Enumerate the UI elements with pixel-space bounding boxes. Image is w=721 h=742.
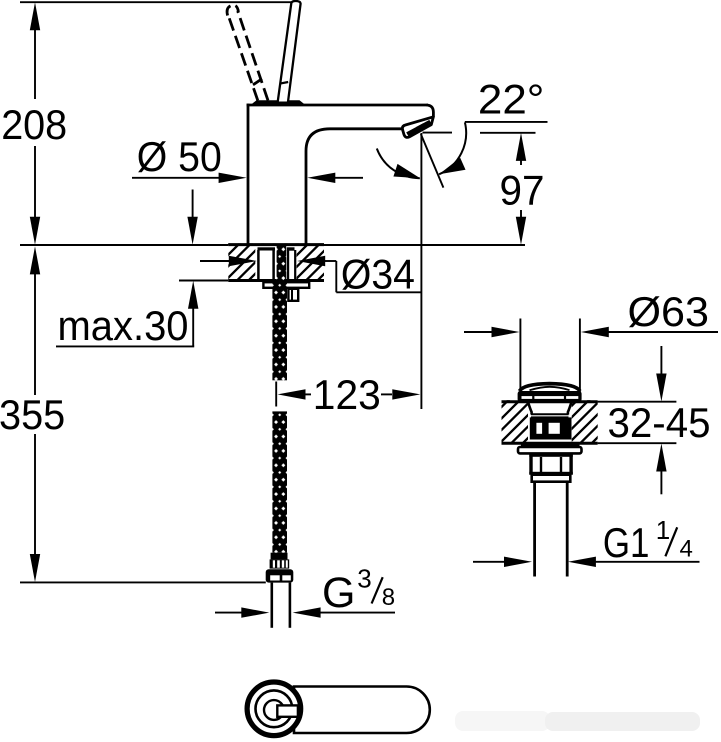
label 123 xyxy=(313,371,381,418)
dimension diameter 34 xyxy=(200,256,421,292)
hose connection nut G3/8 xyxy=(266,569,294,582)
counter deck hatched section xyxy=(228,243,324,281)
spout vertical extension line xyxy=(420,133,422,409)
lever base plate xyxy=(252,100,305,104)
label 355 xyxy=(0,391,65,438)
label max.30 xyxy=(58,302,189,349)
label 32-45 xyxy=(608,399,711,446)
handle boss inner ring xyxy=(264,700,284,720)
label 22 degrees xyxy=(478,76,545,123)
drain step piece xyxy=(532,475,571,482)
svg-text:32-45: 32-45 xyxy=(608,399,711,446)
dimension 208 line xyxy=(30,2,40,245)
label diameter 50 xyxy=(137,133,222,180)
svg-text:max.30: max.30 xyxy=(58,302,189,349)
mounting stub right xyxy=(288,289,298,301)
counter bottom extension line left xyxy=(179,280,229,282)
mounting washer under deck xyxy=(263,282,309,288)
hose-end extension line xyxy=(20,581,266,583)
hose hex section xyxy=(270,559,290,568)
spout height reference line xyxy=(423,132,536,134)
basin deck hatched section xyxy=(502,400,677,443)
label G3/8 xyxy=(322,564,395,617)
dimension 355 line xyxy=(30,246,40,582)
lever handle solid xyxy=(278,1,301,103)
svg-text:22°: 22° xyxy=(478,76,545,123)
svg-text:208: 208 xyxy=(1,101,67,148)
svg-text:4: 4 xyxy=(680,535,693,562)
svg-text:G1: G1 xyxy=(603,519,650,566)
handle boss middle ring xyxy=(256,690,293,727)
svg-text:1: 1 xyxy=(656,515,670,545)
drain tailpipe xyxy=(535,482,568,577)
handle plan view bar xyxy=(294,686,430,733)
drain extension line left xyxy=(519,319,521,393)
dimension G1 1/4 xyxy=(473,557,700,567)
label diameter 63 xyxy=(628,288,710,335)
angle reference line horizontal xyxy=(465,121,548,123)
dimension 32-45 upper arrow xyxy=(656,346,666,402)
faucet body outline xyxy=(247,104,434,245)
watermark smudge xyxy=(455,711,700,731)
drain washer xyxy=(518,447,582,453)
flow direction angled line xyxy=(421,134,444,188)
svg-text:123: 123 xyxy=(313,371,381,418)
drain body neck in hole xyxy=(528,403,571,442)
svg-text:Ø63: Ø63 xyxy=(628,288,710,335)
hose threaded tube xyxy=(272,583,290,628)
spout tip nozzle xyxy=(402,117,433,138)
lever handle raised dashed xyxy=(227,5,268,100)
dimension max.30 xyxy=(56,190,198,347)
drain gasket band xyxy=(521,443,580,447)
dimension 97 xyxy=(516,133,526,245)
swivel arc left xyxy=(377,149,422,185)
drain hex nut xyxy=(529,453,573,474)
svg-text:8: 8 xyxy=(382,584,395,611)
svg-text:G: G xyxy=(322,569,355,617)
svg-text:355: 355 xyxy=(0,391,65,438)
dimension diameter 50 xyxy=(132,173,363,183)
top extension line xyxy=(20,1,292,3)
drain extension line right xyxy=(579,319,581,393)
dimension 32-45 lower arrow xyxy=(656,444,666,495)
shank piece right in hole xyxy=(287,247,295,280)
handle stem xyxy=(277,705,298,716)
svg-text:3: 3 xyxy=(357,564,371,594)
handle boss outer ring xyxy=(247,682,301,736)
label G1 1/4 xyxy=(603,515,693,566)
svg-text:97: 97 xyxy=(500,167,545,214)
drain pushbutton dome cap xyxy=(518,384,582,403)
shank piece left in hole xyxy=(258,247,276,280)
hose crimp sleeve xyxy=(271,553,288,560)
dimension 123 xyxy=(276,382,420,407)
label 208 xyxy=(1,101,67,148)
angle arc right xyxy=(436,122,466,180)
dimension G3/8 xyxy=(215,607,395,617)
supply hose braided xyxy=(272,246,287,553)
svg-text:Ø34: Ø34 xyxy=(341,250,415,297)
label 97 xyxy=(500,167,545,214)
dimension diameter 63 xyxy=(464,327,718,337)
label diameter 34 xyxy=(341,250,415,297)
countertop line xyxy=(20,244,525,246)
svg-text:Ø 50: Ø 50 xyxy=(137,133,222,180)
